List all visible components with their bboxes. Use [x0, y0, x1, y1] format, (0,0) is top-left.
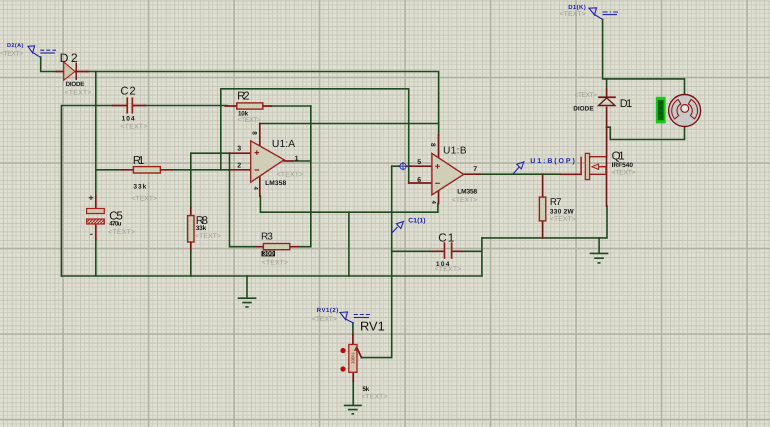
svg-text:<TEXT>: <TEXT> [195, 233, 221, 240]
svg-text:D2(A): D2(A) [7, 42, 24, 49]
svg-text:DIODE: DIODE [66, 81, 85, 88]
svg-text:2: 2 [237, 163, 241, 170]
svg-text:U1:B: U1:B [443, 146, 467, 157]
svg-text:7: 7 [473, 166, 477, 173]
svg-text:R7: R7 [550, 197, 562, 208]
svg-text:C1: C1 [438, 231, 454, 244]
svg-text:LM358: LM358 [265, 180, 286, 187]
svg-text:<TEXT>: <TEXT> [262, 260, 288, 267]
svg-text:<TEXT>: <TEXT> [312, 316, 337, 323]
svg-text:R2: R2 [237, 91, 250, 103]
svg-text:33k: 33k [133, 184, 146, 191]
svg-text:Q1: Q1 [612, 151, 625, 163]
svg-text:C1(1): C1(1) [408, 218, 425, 225]
svg-text:<TEXT>: <TEXT> [65, 89, 92, 96]
svg-text:5k: 5k [362, 386, 369, 393]
svg-text:<TEXT>: <TEXT> [612, 170, 636, 177]
svg-text:<TEXT>: <TEXT> [121, 123, 148, 130]
svg-text:D1: D1 [620, 98, 633, 110]
svg-text:RV1(2): RV1(2) [317, 307, 339, 314]
svg-text:LM358: LM358 [457, 188, 477, 195]
svg-text:<TEXT>: <TEXT> [238, 117, 261, 124]
svg-text:<TEXT>: <TEXT> [560, 11, 586, 18]
svg-text:D1(K): D1(K) [568, 4, 586, 11]
svg-text:6: 6 [417, 177, 421, 184]
svg-text:R3: R3 [261, 232, 273, 243]
svg-text:3: 3 [237, 146, 241, 153]
svg-text:DIODE: DIODE [573, 106, 594, 113]
svg-text:<TEXT>: <TEXT> [362, 393, 388, 400]
svg-text:C2: C2 [120, 86, 135, 98]
svg-text:<TEXT>: <TEXT> [277, 172, 303, 179]
svg-text:U1:A: U1:A [272, 139, 295, 150]
svg-text:<TEXT>: <TEXT> [0, 50, 23, 57]
svg-text:<TEXT>: <TEXT> [452, 197, 477, 204]
svg-text:330 2W: 330 2W [550, 209, 575, 216]
svg-text:300: 300 [263, 251, 275, 258]
svg-text:1: 1 [295, 156, 299, 163]
svg-text:5: 5 [417, 159, 421, 166]
svg-text:100%: 100% [351, 352, 356, 364]
svg-text:33k: 33k [196, 225, 207, 232]
svg-text:8: 8 [429, 143, 436, 147]
svg-text:8: 8 [250, 131, 257, 135]
svg-text:R1: R1 [133, 155, 145, 167]
svg-text:<TEXT>: <TEXT> [435, 266, 462, 273]
svg-text:470u: 470u [109, 221, 121, 228]
svg-text:IRF540: IRF540 [612, 162, 634, 169]
svg-text:<TEXT>: <TEXT> [131, 196, 157, 203]
svg-text:<TEXT>: <TEXT> [550, 216, 576, 223]
svg-text:RV1: RV1 [360, 319, 385, 334]
svg-text:<TEXT>: <TEXT> [574, 92, 597, 99]
svg-text:104: 104 [122, 115, 135, 122]
svg-text:<TEXT>: <TEXT> [108, 229, 135, 236]
